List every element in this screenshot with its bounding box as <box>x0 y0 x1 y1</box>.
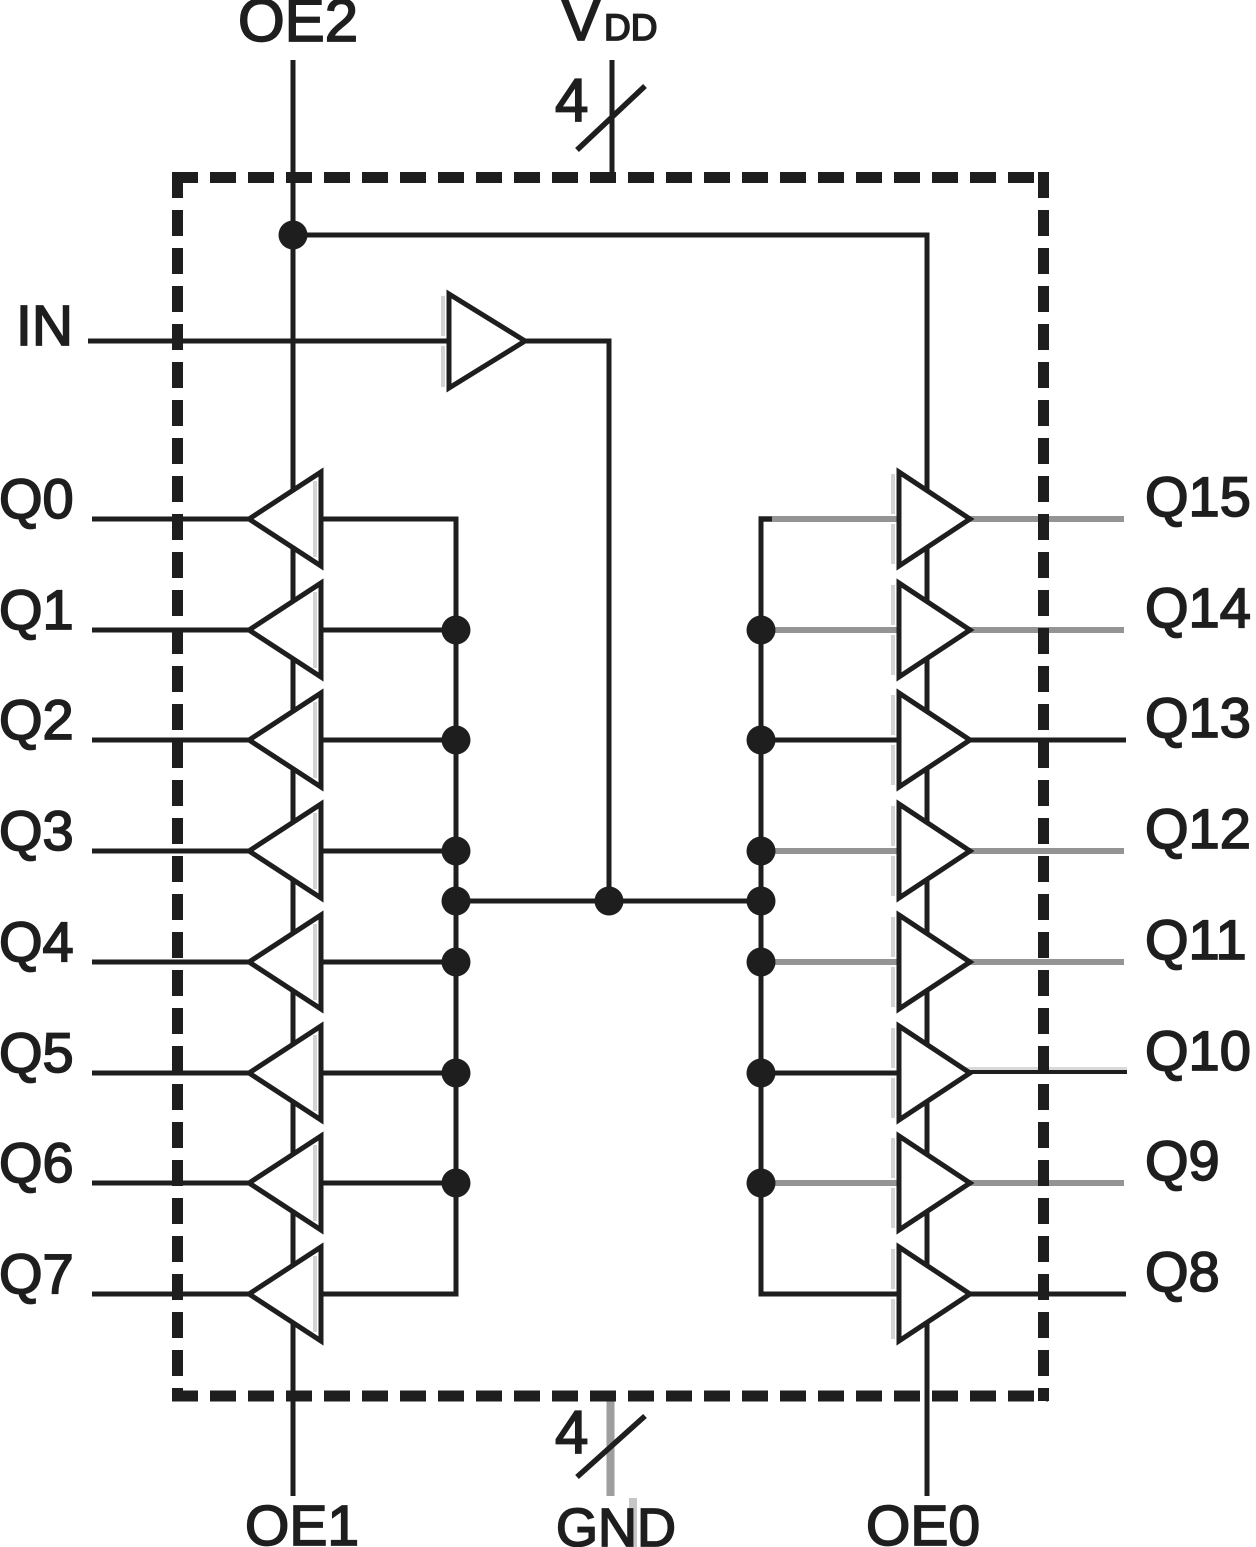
wire Q5 output <box>92 1071 258 1076</box>
wire Q14 buffer input from right bus <box>759 627 903 633</box>
node right bus junction (Q11 input) <box>747 948 776 977</box>
wire right input bus (vertical, x=761) <box>759 517 764 1297</box>
buffer Q14 output driver (tri-state, enable OE) <box>899 583 970 677</box>
wire Q9 buffer input from right bus <box>759 1180 903 1186</box>
node left bus junction (Q3 input) <box>442 837 471 866</box>
buffer Q3 output driver (tri-state, enable OE) <box>249 804 321 898</box>
wire Q12 buffer input from right bus <box>759 848 903 854</box>
svg-text:Q14: Q14 <box>1145 576 1251 639</box>
wire Q2 buffer input from left bus <box>318 738 459 743</box>
node left bus / distribution junction <box>442 887 471 916</box>
node left bus junction (Q2 input) <box>442 726 471 755</box>
node OE2/top-wire junction <box>279 221 308 250</box>
node left bus junction (Q4 input) <box>442 948 471 977</box>
svg-text:IN: IN <box>16 294 73 358</box>
svg-text:OE1: OE1 <box>245 1494 359 1547</box>
wire Q11 buffer input from right bus <box>759 959 903 965</box>
buffer Q1 output driver (tri-state, enable OE) <box>249 583 321 677</box>
wire GND stub scan ghost <box>629 1498 637 1547</box>
svg-text:DD: DD <box>604 7 657 48</box>
wire Q0 output <box>92 517 258 522</box>
wire GND stub <box>607 1394 615 1496</box>
svg-text:Q15: Q15 <box>1145 465 1251 528</box>
wire corner stub Q15 input <box>759 517 773 522</box>
IC boundary dashed box (left edge) <box>172 172 183 1401</box>
buffer IN driver (non-inverting) <box>441 296 445 336</box>
buffer Q7 output driver (tri-state, enable OE) <box>249 1247 321 1341</box>
wire Q13 output <box>962 738 1126 743</box>
svg-text:Q4: Q4 <box>0 910 74 973</box>
node right bus junction (Q10 input) <box>747 1059 776 1088</box>
wire Q9 output <box>962 1180 1124 1186</box>
wire Q10 output <box>962 1067 1127 1071</box>
svg-text:4: 4 <box>555 1399 588 1466</box>
wire left input bus (vertical, x=456) <box>454 517 459 1297</box>
bus slash (VDD) <box>577 86 645 150</box>
svg-text:Q11: Q11 <box>1145 908 1247 971</box>
node right bus junction (Q14 input) <box>747 616 776 645</box>
node left bus junction (Q1 input) <box>442 616 471 645</box>
IC boundary dashed box (right edge) <box>1038 172 1049 1401</box>
wire Q1 output <box>92 628 258 633</box>
wire Q15 buffer input from right bus <box>759 516 903 522</box>
buffer Q12 output driver (tri-state, enable OE) <box>899 804 970 898</box>
wire Q6 buffer input from left bus <box>318 1181 459 1186</box>
node right bus / distribution junction <box>747 887 776 916</box>
wire Q14 output <box>962 627 1124 633</box>
svg-text:OE0: OE0 <box>866 1494 980 1547</box>
svg-text:Q10: Q10 <box>1145 1019 1251 1082</box>
buffer Q0 output driver (tri-state, enable OE) <box>249 472 321 566</box>
wire central distribution (left bus to right bus) <box>456 899 761 904</box>
buffer Q2 output driver (tri-state, enable OE) <box>249 693 321 787</box>
svg-text:Q2: Q2 <box>0 688 74 751</box>
svg-text:Q8: Q8 <box>1145 1240 1220 1303</box>
wire IN input <box>88 339 449 344</box>
node right bus junction (Q9 input) <box>747 1169 776 1198</box>
wire Q5 buffer input from left bus <box>318 1071 459 1076</box>
svg-text:Q9: Q9 <box>1145 1129 1220 1192</box>
wire Q15 output <box>962 516 1124 522</box>
bus slash (GND) <box>577 1416 645 1477</box>
wire OE2-to-OE0 top interconnect <box>293 233 930 238</box>
svg-text:V: V <box>561 0 601 53</box>
wire Q2 output <box>92 738 258 743</box>
wire Q4 buffer input from left bus <box>318 960 459 965</box>
wire Q8 output <box>962 1292 1126 1297</box>
svg-text:Q12: Q12 <box>1145 797 1251 860</box>
buffer Q11 output driver (tri-state, enable OE) <box>899 915 970 1009</box>
svg-text:Q3: Q3 <box>0 799 74 862</box>
node center distribution junction (IN feed) <box>595 887 624 916</box>
wire Q11 output <box>962 959 1124 965</box>
svg-text:4: 4 <box>555 67 588 134</box>
svg-text:Q6: Q6 <box>0 1131 74 1194</box>
buffer Q10 output driver (tri-state, enable OE) <box>899 1026 970 1120</box>
wire Q7 output <box>92 1292 258 1297</box>
wire OE2/OE1 enable line (vertical, x=293) <box>291 60 296 1496</box>
svg-text:OE2: OE2 <box>238 0 358 54</box>
wire Q1 buffer input from left bus <box>318 628 459 633</box>
svg-text:Q5: Q5 <box>0 1021 74 1084</box>
IC boundary dashed box (top edge) <box>172 172 1048 183</box>
wire Q8 buffer input from right bus <box>759 1292 903 1297</box>
svg-text:Q7: Q7 <box>0 1242 74 1305</box>
wire Q6 output <box>92 1181 258 1186</box>
wire Q0 buffer input from left bus <box>318 517 459 522</box>
node left bus junction (Q6 input) <box>442 1169 471 1198</box>
buffer Q6 output driver (tri-state, enable OE) <box>249 1136 321 1230</box>
svg-text:Q1: Q1 <box>0 578 74 641</box>
wire Q3 buffer input from left bus <box>318 849 459 854</box>
wire Q4 output <box>92 960 258 965</box>
svg-text:GND: GND <box>556 1498 676 1547</box>
wire Q7 buffer input from left bus <box>318 1292 459 1297</box>
wire Q13 buffer input from right bus <box>759 738 903 743</box>
wire Q10 buffer input from right bus <box>759 1071 903 1076</box>
node right bus junction (Q13 input) <box>747 726 776 755</box>
node left bus junction (Q5 input) <box>442 1059 471 1088</box>
wire corner stub Q8 input <box>759 1292 773 1297</box>
wire IN buffer output to distribution node <box>520 341 609 901</box>
buffer Q4 output driver (tri-state, enable OE) <box>249 915 321 1009</box>
wire OE0 enable line (vertical, x=927) <box>925 235 930 1496</box>
buffer Q9 output driver (tri-state, enable OE) <box>899 1136 970 1230</box>
wire Q3 output <box>92 849 258 854</box>
buffer Q5 output driver (tri-state, enable OE) <box>249 1026 321 1120</box>
wire VDD stub <box>610 60 615 178</box>
wire Q12 output <box>962 848 1124 854</box>
IC boundary dashed box (bottom edge) <box>172 1391 1048 1402</box>
buffer Q13 output driver (tri-state, enable OE) <box>899 693 970 787</box>
buffer Q8 output driver (tri-state, enable OE) <box>899 1247 970 1341</box>
svg-text:Q0: Q0 <box>0 467 74 530</box>
buffer Q15 output driver (tri-state, enable OE) <box>899 472 970 566</box>
node right bus junction (Q12 input) <box>747 837 776 866</box>
svg-text:Q13: Q13 <box>1145 686 1251 749</box>
